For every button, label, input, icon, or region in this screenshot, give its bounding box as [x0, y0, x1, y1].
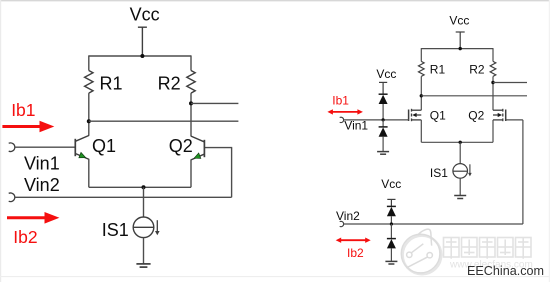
- wire D1 to Vin1 node: [382, 104, 384, 120]
- wire R2 top lead: [190, 55, 192, 70]
- current source IS1 (left): [133, 217, 154, 238]
- wire R1 top lead: [88, 55, 90, 70]
- wire Q2 gate lead: [506, 119, 523, 121]
- wire emitter rail (left): [89, 186, 191, 188]
- resistor R1: [85, 71, 93, 94]
- wire Vin1 to Q1 base: [15, 146, 76, 148]
- junction dot source rail (right): [459, 141, 462, 144]
- svg-text:Vin2: Vin2: [336, 209, 360, 223]
- wire Q2 emitter: [190, 160, 192, 188]
- svg-text:Ib1: Ib1: [11, 100, 35, 120]
- svg-text:Q2: Q2: [169, 136, 193, 156]
- wire Vin2 riser to Q2 base: [231, 148, 233, 198]
- diode D2 (ground to Vin1): [379, 127, 388, 137]
- wire Vin2 line (left): [15, 196, 232, 198]
- svg-text:R1: R1: [430, 63, 446, 77]
- wire R2 bottom lead to Q2 collector: [190, 93, 192, 136]
- current direction arrow IS1 (right): [468, 164, 472, 176]
- wire R1 bottom lead (right): [420, 76, 422, 110]
- wire D4 to ground: [390, 248, 392, 261]
- svg-text:IS1: IS1: [430, 166, 448, 180]
- current arrow Ib2 (right, red, double-headed): [336, 238, 371, 243]
- wire output 1 (right circuit): [493, 82, 527, 84]
- ground (left): [136, 264, 150, 267]
- diode D4 (ground to Vin2): [387, 239, 396, 249]
- svg-text:Q1: Q1: [430, 108, 446, 122]
- transistor Q2 (NPN, mirrored): [191, 136, 205, 160]
- watermark text 电子发烧友 (faux glyph blocks): [444, 238, 532, 259]
- wire output 1 (left circuit): [191, 102, 238, 104]
- wire R2 bottom lead (right): [492, 76, 494, 110]
- wire Vin1 node to D2: [382, 120, 384, 127]
- junction dot Vcc rail (right): [459, 47, 462, 50]
- emitter arrow Q1 (green): [79, 152, 86, 157]
- wire Q1 emitter: [88, 159, 90, 187]
- input terminal Vin1 (right): [340, 117, 344, 122]
- power Vcc terminal (Vin1 branch): [379, 82, 387, 94]
- svg-text:Ib2: Ib2: [347, 246, 364, 260]
- ground IS1 (right): [454, 196, 466, 199]
- watermark logo circle: [401, 229, 441, 274]
- body arrow Q2 (points to channel): [498, 113, 502, 117]
- page top border: [0, 0, 550, 2]
- power Vcc terminal (left): [138, 27, 147, 56]
- current direction arrow IS1 (left): [155, 220, 160, 235]
- svg-text:R2: R2: [469, 63, 485, 77]
- junction dot R2 output (right): [491, 81, 494, 84]
- wire Vin2 node to D4: [390, 224, 392, 239]
- svg-text:R1: R1: [100, 74, 123, 94]
- diode D3 (Vin2 to Vcc): [387, 206, 396, 216]
- wire D3 to Vin2 node: [390, 216, 392, 224]
- svg-text:EEChina.com: EEChina.com: [467, 264, 544, 278]
- svg-text:Ib2: Ib2: [13, 227, 37, 247]
- current arrow Ib1 (right, red, double-headed): [327, 109, 363, 114]
- svg-text:Vcc: Vcc: [449, 13, 469, 27]
- input terminal Vin2 (left): [9, 193, 15, 202]
- wire D2 to ground: [382, 137, 384, 152]
- wire output 2 (right circuit): [421, 95, 527, 97]
- ground (Vin1 branch): [377, 152, 389, 155]
- wire output 2 (left circuit): [89, 120, 239, 122]
- junction dot Vin1 clamp node: [382, 118, 385, 121]
- ground (Vin2 branch): [385, 261, 397, 264]
- svg-text:Ib1: Ib1: [332, 94, 349, 108]
- wire to current source IS1 (left): [143, 187, 145, 217]
- page left border: [0, 0, 2, 282]
- wire R1 top lead (right): [420, 48, 422, 61]
- svg-text:Q2: Q2: [468, 108, 484, 122]
- wire R1 bottom lead to Q1 collector: [88, 93, 90, 135]
- junction dot Q1 collector output: [87, 119, 91, 123]
- wire Q2 base lead: [204, 147, 232, 149]
- svg-text:Vcc: Vcc: [130, 4, 160, 24]
- power Vcc terminal (Vin2 branch): [387, 199, 395, 206]
- current source IS1 (right): [453, 164, 468, 179]
- svg-text:Vin2: Vin2: [24, 175, 60, 195]
- junction dot Vin2 clamp node: [390, 222, 393, 225]
- junction dot emitter rail: [142, 185, 146, 189]
- power Vcc terminal (right): [456, 32, 465, 49]
- wire IS1 to ground: [143, 238, 145, 264]
- resistor R2 (right): [490, 61, 496, 76]
- wire Vin1 to Q1 gate: [344, 119, 409, 121]
- current arrow Ib2 (left, red): [7, 212, 59, 224]
- emitter arrow Q2 (green): [194, 153, 201, 158]
- wire R2 top lead (right): [492, 48, 494, 61]
- svg-text:Vin1: Vin1: [24, 153, 60, 173]
- resistor R2: [187, 71, 195, 94]
- wire IS1 to ground (right): [459, 178, 461, 195]
- body arrow Q1 (points to channel): [412, 113, 416, 117]
- svg-text:Q1: Q1: [92, 136, 116, 156]
- wire Q1 source: [420, 120, 422, 142]
- transistor Q1 (NMOS): [409, 109, 422, 121]
- current arrow Ib1 (left, red): [2, 121, 54, 133]
- input terminal Vin2 (right): [340, 221, 344, 226]
- diode D1 (Vin1 to Vcc): [379, 94, 388, 104]
- transistor Q1 (NPN): [75, 135, 89, 159]
- wire Vin2 line (right): [344, 223, 523, 225]
- svg-text:Vcc: Vcc: [381, 177, 401, 191]
- transistor Q2 (NMOS, mirrored): [493, 109, 506, 121]
- wire to current source IS1 (right): [459, 142, 461, 163]
- wire source rail (right): [421, 141, 493, 143]
- resistor R1 (right): [418, 61, 424, 76]
- watermark strip separator: [0, 276, 550, 278]
- wire top rail (left): [89, 55, 191, 57]
- input terminal Vin1 (left): [9, 143, 15, 152]
- junction dot R2 output: [189, 101, 193, 105]
- svg-text:Vcc: Vcc: [376, 67, 396, 81]
- svg-text:IS1: IS1: [102, 220, 129, 240]
- wire Q2 source: [492, 120, 494, 142]
- page right border: [548, 0, 550, 282]
- junction dot Vcc rail: [140, 54, 144, 58]
- junction dot Q1 drain output (right): [420, 94, 423, 97]
- svg-text:Vin1: Vin1: [344, 119, 368, 133]
- svg-text:R2: R2: [158, 74, 181, 94]
- wire top rail (right): [421, 48, 493, 50]
- wire Q2 gate riser to Vin2: [522, 120, 524, 224]
